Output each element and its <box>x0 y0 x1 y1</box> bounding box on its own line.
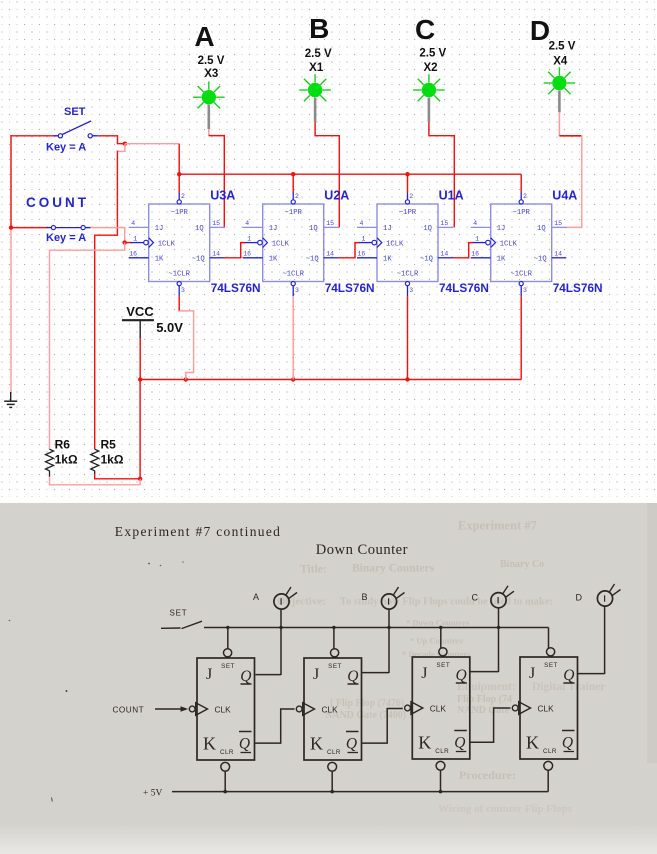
svg-text:* Down Counters: * Down Counters <box>406 618 470 628</box>
wire: X1 to U2A pin 15 <box>315 122 339 227</box>
svg-text:SET: SET <box>544 662 558 669</box>
wire: U2A pin 3 to rail <box>292 296 294 379</box>
SET drops to flip-flop preset bubbles <box>227 628 229 649</box>
node: +5V rail junctions <box>223 790 227 794</box>
svg-text:Experiment #7: Experiment #7 <box>458 519 537 533</box>
wire: left bus vertical <box>10 135 12 228</box>
svg-text:D: D <box>576 593 583 603</box>
svg-text:CLK: CLK <box>430 704 447 714</box>
wire: lamp B stem to Q of FF2 <box>388 609 390 673</box>
jk flip-flop U2A 74LS76N <box>243 192 339 296</box>
wire: lamp X3 lead (gray stem) <box>208 105 211 130</box>
paper specks <box>148 563 150 565</box>
svg-text:Q: Q <box>454 735 465 752</box>
probe lamp X1 (node B) <box>299 13 332 101</box>
switch SET (scan) <box>161 627 181 629</box>
svg-text:Binary Counters: Binary Counters <box>352 563 435 575</box>
svg-text:Q: Q <box>455 667 466 684</box>
svg-text:SET: SET <box>221 663 235 670</box>
svg-text:K: K <box>418 733 431 753</box>
svg-text:NAND Gate (7400) ]: NAND Gate (7400) ] <box>325 710 412 721</box>
jk flip-flop FF3 (scan) <box>405 648 470 770</box>
svg-text:Objective:: Objective: <box>277 596 326 608</box>
jk flip-flop U4A 74LS76N <box>471 192 567 296</box>
wire: R6 bottom to junction <box>50 477 141 485</box>
svg-text:J: J <box>529 665 535 682</box>
svg-text:CLR: CLR <box>435 748 449 755</box>
wire: U2A ~1Q to U1A 1CLK <box>338 243 359 258</box>
wire: FF3 Qbar to FF4 CLK <box>470 708 511 742</box>
wire: FF1 Qbar to FF2 CLK <box>255 709 295 743</box>
node: preset rail junctions <box>177 172 181 176</box>
svg-text:Down Counter: Down Counter <box>316 542 408 558</box>
node: rail junctions <box>138 377 142 381</box>
wire: R5 bottom to junction <box>95 474 140 479</box>
svg-text:Q: Q <box>347 668 358 685</box>
power VCC 5.0V <box>122 304 183 338</box>
svg-text:J: J <box>313 666 319 683</box>
probe lamp X2 (node C) <box>413 14 446 101</box>
wire: lamp X1 lead (gray stem) <box>314 98 317 122</box>
wire: SET switch to junction <box>98 136 124 144</box>
wire: junction to U3A 1CLK <box>125 242 132 244</box>
svg-text:CLR: CLR <box>220 749 234 756</box>
jk flip-flop FF1 (scan) <box>189 649 254 771</box>
wire: X2 to U1A pin 15 <box>429 122 454 227</box>
wire: COUNT switch to clock junction <box>91 228 125 242</box>
wire: U1A ~1Q to U4A 1CLK <box>453 243 474 258</box>
svg-text:K: K <box>310 734 323 754</box>
wire: CLR drops to +5V rail <box>224 771 226 791</box>
jk flip-flop FF2 (scan) <box>296 649 361 771</box>
resistor R6 1k&#937; <box>46 437 78 477</box>
svg-text:J: J <box>421 665 427 682</box>
svg-text:K: K <box>203 734 216 754</box>
probe lamp X4 (node D) <box>530 15 576 94</box>
jk flip-flop U1A 74LS76N <box>357 192 453 296</box>
indicator lamp B (scan) <box>362 587 405 609</box>
svg-text:J: J <box>206 666 212 683</box>
ground GND <box>4 392 17 407</box>
wire: preset rail ~1PR <box>179 173 521 175</box>
svg-text:Q: Q <box>563 667 574 684</box>
wire: U1A pin 3 to rail <box>407 296 409 379</box>
wire: lamp A stem to Q of FF1 <box>280 609 282 675</box>
wire: SET junction jog down to R5 branch <box>117 144 125 152</box>
svg-text:* Up Counters: * Up Counters <box>410 636 464 646</box>
wire: VCC to bottom rail <box>139 338 141 379</box>
svg-text:Q: Q <box>562 735 573 752</box>
svg-text:SET: SET <box>328 663 342 670</box>
wire: U3A ~1Q to U2A 1CLK <box>224 243 245 258</box>
svg-text:K: K <box>526 733 539 753</box>
svg-text:Q: Q <box>239 736 250 753</box>
wire: X4 to U4A pin 15 <box>558 112 560 136</box>
svg-text:B: B <box>362 592 368 602</box>
wire: COUNT arrow to FF1 clock <box>155 708 181 710</box>
svg-text:CLK: CLK <box>538 704 555 714</box>
svg-text:To study how Flip Flops could: To study how Flip Flops could be used to… <box>340 597 553 608</box>
switch S1 "SET" Key = A <box>46 106 98 153</box>
wire: SET net down to R5 <box>95 151 118 450</box>
jk flip-flop U3A 74LS76N <box>129 192 225 296</box>
wire: COUNT net down to R6 <box>50 243 125 450</box>
svg-text:Procedure:: Procedure: <box>459 768 516 782</box>
wire: SET line <box>204 627 549 629</box>
svg-text:CLR: CLR <box>327 749 341 756</box>
indicator lamp A (scan) <box>253 587 297 609</box>
svg-text:SET: SET <box>436 662 450 669</box>
node: left bus junction <box>9 225 13 229</box>
indicator lamp D (scan) <box>576 584 621 606</box>
svg-text:Wiring of counter Flip Flops: Wiring of counter Flip Flops <box>438 803 573 815</box>
wire: junction to preset drop <box>125 143 179 145</box>
svg-text:Flip Flop (74: Flip Flop (74 <box>457 694 512 705</box>
svg-text:Title:: Title: <box>300 564 327 576</box>
wire: U3A pin 3 to rail <box>178 296 180 311</box>
svg-text:CLR: CLR <box>543 748 557 755</box>
jk flip-flop FF4 (scan) <box>512 648 577 770</box>
svg-text:+ 5V: + 5V <box>143 788 162 798</box>
wire: lamp D stem to Q of FF4 <box>604 606 606 674</box>
svg-text:[ Flip Flop (7476): [ Flip Flop (7476) <box>330 698 404 709</box>
wire: COUNT line from left bus <box>11 227 46 229</box>
indicator lamp C (scan) <box>472 586 515 608</box>
svg-text:Experiment #7 continued: Experiment #7 continued <box>115 524 281 539</box>
wire: lamp X2 lead (gray stem) <box>428 98 431 122</box>
svg-text:SET: SET <box>170 609 188 618</box>
svg-text:Binary Co: Binary Co <box>500 559 544 570</box>
svg-text:CLK: CLK <box>322 705 339 715</box>
svg-text:Q: Q <box>240 668 251 685</box>
wire: lamp C stem to Q of FF3 <box>498 608 500 672</box>
svg-text:Q: Q <box>346 736 357 753</box>
wire: SET line to switch <box>11 135 54 137</box>
wire: preset drops to pin 2 of U3A,U2A,U1A,U4A <box>178 174 180 192</box>
node: resistor bottom junction <box>138 477 142 481</box>
wire: bottom VCC rail <box>140 379 521 381</box>
wire: rail to resistor bottoms <box>139 380 141 479</box>
wire: U4A pin 3 to rail <box>520 296 522 379</box>
svg-text:C: C <box>472 593 479 603</box>
node: SET net junction <box>123 142 127 146</box>
node: lamp stem crossings on SET line <box>279 626 282 629</box>
wire: FF2 Qbar to FF3 CLK <box>361 709 403 744</box>
svg-text:CLK: CLK <box>215 705 232 715</box>
svg-text:NAND Gate: NAND Gate <box>457 705 509 716</box>
node: clock junction at U3A pin 1 <box>123 240 127 244</box>
resistor R5 1k&#937; <box>91 437 124 474</box>
probe lamp X3 (node A) <box>193 21 225 108</box>
svg-text:A: A <box>253 592 259 602</box>
wire: X3 to U3A pin 15 <box>208 129 210 136</box>
wire: lamp X4 lead (gray stem) <box>558 91 561 113</box>
svg-text:COUNT: COUNT <box>113 705 145 714</box>
switch S2 "COUNT" Key = A (closed) <box>26 195 91 244</box>
